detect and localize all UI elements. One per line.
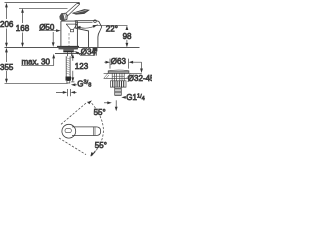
top view aerator rect inside circle [65, 129, 71, 133]
22 degree stream line [80, 25, 98, 28]
arrow down 355 at bottom line [5, 79, 8, 84]
flexible hose [66, 56, 70, 76]
arrow left at right ext line [129, 61, 134, 64]
front view lever knob [60, 13, 68, 21]
front view washer under deck [59, 48, 79, 50]
side view spout nose [76, 21, 89, 48]
arrow right at left ext line [106, 61, 111, 64]
waste body through deck [112, 73, 124, 81]
side view lever pivot circle [94, 20, 97, 23]
svg-text:22°: 22° [106, 24, 118, 33]
svg-text:98: 98 [123, 32, 132, 41]
arrow down 206 at deck [5, 43, 8, 48]
waste tailpipe [115, 87, 122, 95]
svg-text:G11/4: G11/4 [126, 93, 144, 102]
dimension line 206/355 vertical [5, 5, 7, 81]
max.30 underline leader [21, 56, 53, 66]
front view base ring on deck [57, 46, 79, 48]
22 degree horizontal reference line [94, 24, 128, 26]
mini dimension below hose [56, 89, 77, 96]
small vertical line with arrow far right [115, 100, 117, 109]
hose end fitting [66, 77, 72, 81]
waste deck section lines [104, 73, 142, 78]
upper swivel dashed ray [61, 102, 88, 125]
deck hatch left [104, 74, 109, 79]
max.30 arrow up to deck underside [52, 54, 55, 59]
arrow down 98 [126, 43, 129, 48]
deck line (mounting surface) [5, 46, 140, 48]
svg-text:G3/8: G3/8 [77, 79, 91, 88]
extension line top of lever (ref for 206/355) [5, 2, 80, 4]
lower ray leader from text [92, 151, 96, 155]
svg-text:Ø63: Ø63 [111, 57, 127, 66]
svg-text:55°: 55° [94, 108, 106, 117]
deck bottom line under front view [55, 52, 81, 54]
waste flange [108, 70, 129, 73]
swivel angle dashed arc [91, 103, 103, 156]
D50 arrow pointing right at body [56, 29, 61, 32]
top view body capsule [72, 127, 101, 136]
side view shank under deck [93, 48, 98, 52]
upper ray arrowhead [87, 100, 92, 104]
waste: D63 dimension [104, 59, 141, 70]
extension line spout outlet (ref for 168) [19, 7, 68, 9]
G3/8 leader arrow [75, 84, 77, 86]
front view centerline dashes [68, 33, 70, 47]
arrow up 123 [71, 54, 74, 59]
dimension line 168 vertical [22, 11, 24, 46]
arrow down 123 [71, 77, 74, 82]
svg-text:123: 123 [75, 62, 89, 71]
side view body rear edge [98, 31, 100, 47]
side view body top [75, 20, 96, 22]
dimension 98 vertical [126, 28, 128, 44]
svg-text:206: 206 [0, 20, 14, 29]
22 degree arrowhead at vertex [93, 25, 98, 28]
svg-text:168: 168 [16, 24, 30, 33]
D50 underline leader [39, 29, 59, 31]
arrow up 355 below deck [5, 48, 8, 53]
front view body [61, 21, 78, 47]
max.30 arrow down to deck top [52, 42, 55, 47]
max.30 upper partner line [52, 32, 54, 43]
G1 1/4 leader arrow [124, 96, 126, 98]
bottom reference line (hose end) [5, 82, 68, 84]
deck hatch right [127, 74, 132, 79]
arrow up 206 top [5, 3, 8, 8]
svg-text:355: 355 [0, 63, 14, 72]
shank [68, 52, 72, 56]
arrow up 98 [126, 26, 129, 31]
top view body detail lines [93, 127, 95, 136]
svg-text:Ø32-45: Ø32-45 [128, 74, 152, 83]
D34 underline and leader arrow [77, 52, 95, 55]
top view spout tip circle [62, 124, 76, 138]
small horizontal arrow top right [104, 102, 110, 104]
arrow down 168 at deck [21, 43, 24, 48]
front view lever blade [64, 3, 80, 17]
lower swivel dashed ray [59, 138, 86, 155]
front view nut under deck [63, 49, 74, 52]
side view handle tail [96, 21, 102, 32]
aerator arrow (points left at spout mouth) [76, 26, 81, 29]
waste locknut [110, 81, 126, 87]
arrow up 168 top [21, 8, 24, 13]
side view lever blade [73, 10, 89, 15]
dimension 123 vertical [71, 56, 74, 82]
arrow down at deck [140, 69, 143, 74]
front view spout funnel [66, 24, 77, 32]
lower ray arrowhead [90, 152, 94, 157]
